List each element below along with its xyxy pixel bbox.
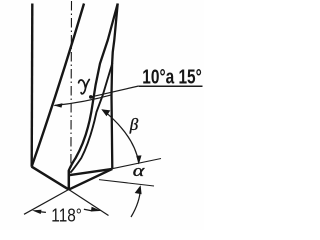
beta arc top arrowhead bbox=[101, 109, 110, 116]
118 right arrow tail bbox=[84, 209, 93, 212]
118 left extension line bbox=[24, 190, 69, 215]
svg-text:α: α bbox=[133, 161, 146, 180]
gamma label bbox=[79, 80, 90, 94]
svg-text:β: β bbox=[129, 115, 139, 134]
gamma arc left arrowhead bbox=[53, 103, 62, 107]
centerline (axis, dash-dot) bbox=[70, 1, 73, 168]
left flute edge bbox=[32, 4, 84, 167]
right flute inner edge bbox=[69, 4, 118, 171]
alpha curved arrow arc bbox=[131, 189, 140, 218]
svg-text:10°a 15°: 10°a 15° bbox=[142, 65, 202, 88]
left body edge line bbox=[31, 4, 34, 167]
right cutting lip bbox=[69, 169, 113, 190]
alpha upper reference line bbox=[105, 159, 161, 171]
chisel edge bbox=[68, 171, 71, 190]
left cutting lip bbox=[32, 167, 69, 190]
beta arc bottom arrowhead bbox=[136, 155, 141, 164]
leader end dot bbox=[89, 95, 93, 99]
118 left arrow tail bbox=[39, 211, 46, 213]
heel edge bbox=[70, 63, 112, 173]
label underline bbox=[139, 85, 203, 87]
alpha lower flank line bbox=[99, 180, 154, 186]
beta measure arc bbox=[103, 110, 139, 163]
heel bottom line bbox=[69, 169, 112, 175]
alpha arrow head bbox=[135, 185, 142, 194]
118 left arrowhead bbox=[32, 210, 42, 214]
leader line from label bbox=[92, 86, 139, 97]
gamma measure arc bbox=[55, 95, 113, 106]
right flute outer edge bbox=[112, 4, 118, 169]
118 right arrowhead bbox=[91, 207, 101, 212]
svg-text:118°: 118° bbox=[51, 205, 82, 226]
118 right extension line bbox=[69, 190, 109, 216]
